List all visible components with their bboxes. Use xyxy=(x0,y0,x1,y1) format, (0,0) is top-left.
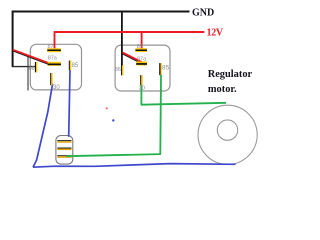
regulator motor M1 inner circle xyxy=(217,120,237,140)
red paint speck xyxy=(106,107,108,109)
svg-text:87: 87 xyxy=(137,44,143,50)
wire 12V drop to K2 pin 87 xyxy=(141,32,143,49)
wire black diagonal to K1 87a xyxy=(13,51,49,64)
connector J1 pin bar 3 xyxy=(57,155,71,158)
svg-text:87a: 87a xyxy=(137,56,147,62)
svg-text:Regulator: Regulator xyxy=(208,69,253,80)
svg-text:86: 86 xyxy=(115,67,121,73)
svg-text:87a: 87a xyxy=(48,55,58,61)
blue paint speck xyxy=(112,119,114,121)
wire 12V drop to K1 pin 87 xyxy=(54,31,56,48)
wire to relay K1 pin 86 xyxy=(12,66,36,68)
relay K2 pin 87 xyxy=(135,48,147,52)
connector J1 pin bar 1 xyxy=(57,140,71,143)
svg-text:30: 30 xyxy=(139,85,145,91)
wire blue K1 pin30 to corner xyxy=(33,84,53,168)
relay K2 pin 85 xyxy=(159,63,162,75)
wire GND drop to relay K2 xyxy=(121,12,123,66)
relay K2 pin 86 xyxy=(121,65,123,75)
svg-text:86: 86 xyxy=(29,66,35,72)
wire red diagonal to K2 87a xyxy=(123,52,147,64)
wire green K2 pin30 to motor xyxy=(141,85,226,105)
svg-text:85: 85 xyxy=(162,65,170,72)
wire blue bottom run to motor xyxy=(33,164,236,168)
relay K2 pin 30 xyxy=(140,75,143,85)
connector J1 body xyxy=(56,136,73,165)
relay K1 pin 85 xyxy=(69,61,72,71)
relay K1 pin 86 xyxy=(35,62,38,72)
wire stray vertical from diagonal down left of relay K1 xyxy=(27,56,29,91)
regulator motor M1 outer circle xyxy=(198,105,257,164)
wire GND left vertical xyxy=(12,11,14,68)
relay K2 body xyxy=(115,45,170,91)
relay K1 pin 87a xyxy=(48,62,61,66)
relay K1 pin 30 xyxy=(50,73,53,85)
wire blue K1 pin85 to connector xyxy=(69,70,70,137)
svg-text:87: 87 xyxy=(48,44,54,50)
wire black diagonal to K2 87a xyxy=(122,53,145,65)
wire red diagonal to K1 87a xyxy=(13,50,49,63)
svg-text:12V: 12V xyxy=(207,28,224,39)
relay K1 pin 87 xyxy=(47,48,61,52)
wire GND horizontal top xyxy=(12,11,190,13)
wire 12V horizontal xyxy=(54,31,204,33)
relay K1 body xyxy=(30,44,81,90)
svg-text:motor.: motor. xyxy=(208,84,237,95)
svg-text:85: 85 xyxy=(72,63,79,69)
svg-text:30: 30 xyxy=(53,85,60,91)
wire green K2 pin85 to connector xyxy=(66,75,161,156)
relay K2 pin 87a xyxy=(136,61,147,65)
connector J1 pin bar 2 xyxy=(57,148,71,151)
svg-text:GND: GND xyxy=(192,8,214,19)
